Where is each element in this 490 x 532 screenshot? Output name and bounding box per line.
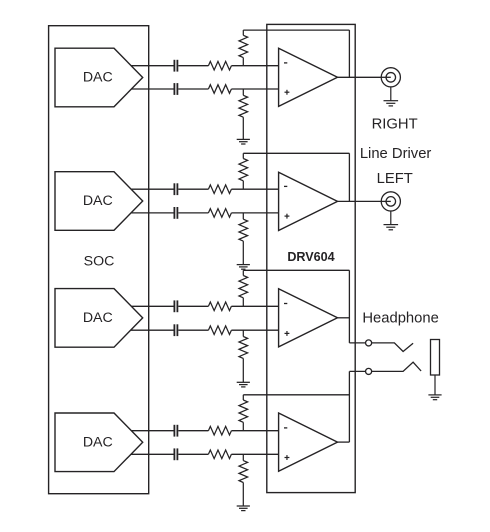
input resistor ch4 (IN+) — [208, 450, 231, 459]
wire ch3 resistor to op-amp IN- — [231, 305, 278, 307]
input resistor ch2 (IN-) — [208, 185, 231, 194]
DAC block 3 — [55, 289, 143, 348]
coupling capacitor ch3 (IN+) — [173, 324, 175, 336]
coupling capacitor ch4 (IN+) — [173, 448, 175, 460]
op-amp A4 inverting input mark — [284, 427, 287, 429]
RCA jack LEFT (center pin) — [386, 197, 396, 207]
op-amp A3 — [279, 289, 338, 347]
wire ch4 cap to input resistor (IN+) — [178, 453, 208, 455]
ground headphone load — [434, 375, 436, 395]
bias resistor ch2 (IN+ to GND) — [242, 213, 244, 219]
feedback resistor ch1 — [242, 30, 244, 35]
RCA jack LEFT pin stub — [382, 200, 391, 202]
op-amp A2 inverting input mark — [284, 185, 287, 187]
wire ch3 cap to input resistor (IN-) — [178, 305, 208, 307]
wire ch1 DAC out- to coupling cap — [131, 88, 173, 90]
headphone tip switch contact — [372, 343, 413, 352]
bias resistor ch4 (IN+ to GND) — [242, 454, 244, 460]
wire ch1 resistor to op-amp IN+ — [231, 88, 278, 90]
DAC block 1 — [55, 48, 143, 107]
coupling capacitor ch2 (IN-) — [173, 183, 175, 195]
wire ch4 op-amp output — [338, 441, 350, 443]
coupling capacitor ch1 (IN-) — [173, 60, 175, 72]
coupling capacitor ch1 (IN+) — [173, 83, 175, 95]
op-amp A1 — [279, 48, 338, 106]
input resistor ch3 (IN+) — [208, 326, 231, 335]
wire ch1 cap to input resistor (IN-) — [178, 65, 208, 67]
DAC block 4 — [55, 413, 143, 472]
svg-text:Headphone: Headphone — [362, 311, 439, 327]
wire ch3 DAC out+ to coupling cap — [131, 305, 173, 307]
wire ch1 DAC out+ to coupling cap — [131, 65, 173, 67]
svg-text:LEFT: LEFT — [377, 171, 413, 187]
headphone load (speaker impedance) — [431, 340, 440, 376]
svg-text:DAC: DAC — [83, 70, 113, 86]
wire ch4 DAC out+ to coupling cap — [131, 430, 173, 432]
wire ch2 DAC out+ to coupling cap — [131, 188, 173, 190]
wire ch1 feedback vertical — [348, 30, 350, 77]
wire ch2 feedback vertical — [348, 153, 350, 201]
op-amp A2 non-inverting input mark — [285, 215, 290, 217]
SOC block outline — [49, 26, 149, 494]
wire ch2 op-amp output to LEFT jack — [338, 200, 382, 202]
input resistor ch1 (IN+) — [208, 85, 231, 94]
op-amp A1 non-inverting input mark — [285, 91, 290, 93]
coupling capacitor ch4 (IN-) — [173, 425, 175, 437]
wire ch4 resistor to op-amp IN+ — [231, 453, 278, 455]
wire ch1 feedback top — [243, 29, 349, 31]
wire ch4 cap to input resistor (IN-) — [178, 430, 208, 432]
DAC block 2 — [55, 172, 143, 231]
wire ch3 to headphone tip contact — [349, 342, 365, 344]
op-amp A4 — [279, 413, 338, 471]
input resistor ch3 (IN-) — [208, 302, 231, 311]
wire ch4 DAC out- to coupling cap — [131, 453, 174, 455]
wire ch4 resistor to op-amp IN- — [231, 430, 278, 432]
op-amp A3 non-inverting input mark — [285, 332, 290, 334]
wire ch2 cap to input resistor (IN+) — [178, 212, 208, 214]
wire ch1 cap to input resistor (IN+) — [178, 88, 208, 90]
feedback resistor ch4 — [242, 395, 244, 400]
op-amp A4 non-inverting input mark — [285, 457, 290, 459]
op-amp A1 inverting input mark — [284, 62, 287, 64]
headphone ring switch contact — [372, 362, 421, 371]
ground RIGHT jack shield — [390, 87, 392, 101]
wire ch1 resistor to op-amp IN- — [231, 65, 278, 67]
svg-text:DRV604: DRV604 — [287, 250, 334, 264]
wire ch3 feedback top — [243, 269, 349, 271]
input resistor ch4 (IN-) — [208, 426, 231, 435]
svg-text:DAC: DAC — [83, 435, 113, 451]
ground ch3 (IN+ bias) — [237, 381, 250, 383]
input resistor ch1 (IN-) — [208, 61, 231, 70]
wire ch3 resistor to op-amp IN+ — [231, 329, 278, 331]
RCA jack RIGHT pin stub — [382, 76, 391, 78]
ground ch1 (IN+ bias) — [237, 138, 250, 140]
feedback resistor ch3 — [242, 270, 244, 275]
ground LEFT jack shield — [390, 211, 392, 225]
input resistor ch2 (IN+) — [208, 209, 231, 218]
wire ch4 to headphone ring contact — [349, 370, 365, 372]
svg-text:Line Driver: Line Driver — [360, 146, 432, 162]
svg-text:RIGHT: RIGHT — [372, 116, 418, 132]
wire ch3 feedback+output vertical — [348, 270, 350, 343]
ground ch4 (IN+ bias) — [237, 505, 250, 507]
svg-text:SOC: SOC — [84, 254, 115, 270]
coupling capacitor ch3 (IN-) — [173, 300, 175, 312]
wire ch2 DAC out- to coupling cap — [131, 212, 174, 214]
RCA jack RIGHT (center pin) — [386, 73, 396, 83]
wire ch2 feedback top — [243, 152, 349, 154]
op-amp A3 inverting input mark — [284, 303, 287, 305]
headphone jack ring terminal (circle) — [366, 368, 372, 374]
bias resistor ch3 (IN+ to GND) — [242, 330, 244, 336]
svg-text:DAC: DAC — [83, 310, 113, 326]
wire ch3 DAC out- to coupling cap — [131, 329, 174, 331]
wire ch3 op-amp output — [338, 317, 350, 319]
RCA jack LEFT (outer ring) — [381, 192, 400, 211]
bias resistor ch1 (IN+ to GND) — [242, 89, 244, 95]
wire ch2 resistor to op-amp IN+ — [231, 212, 278, 214]
wire ch2 cap to input resistor (IN-) — [178, 188, 208, 190]
wire ch1 op-amp output to RIGHT jack — [338, 76, 382, 78]
svg-text:DAC: DAC — [83, 193, 113, 209]
wire ch2 resistor to op-amp IN- — [231, 188, 278, 190]
ground ch2 (IN+ bias) — [237, 264, 250, 266]
DRV604 IC outline U1 — [267, 24, 355, 492]
RCA jack RIGHT (outer ring) — [381, 68, 400, 87]
wire ch3 cap to input resistor (IN+) — [178, 329, 208, 331]
op-amp A2 — [279, 172, 338, 230]
feedback resistor ch2 — [242, 153, 244, 158]
wire ch4 feedback top — [243, 394, 349, 396]
headphone jack tip terminal (circle) — [366, 340, 372, 346]
coupling capacitor ch2 (IN+) — [173, 207, 175, 219]
wire ch4 feedback+output vertical — [348, 371, 350, 442]
